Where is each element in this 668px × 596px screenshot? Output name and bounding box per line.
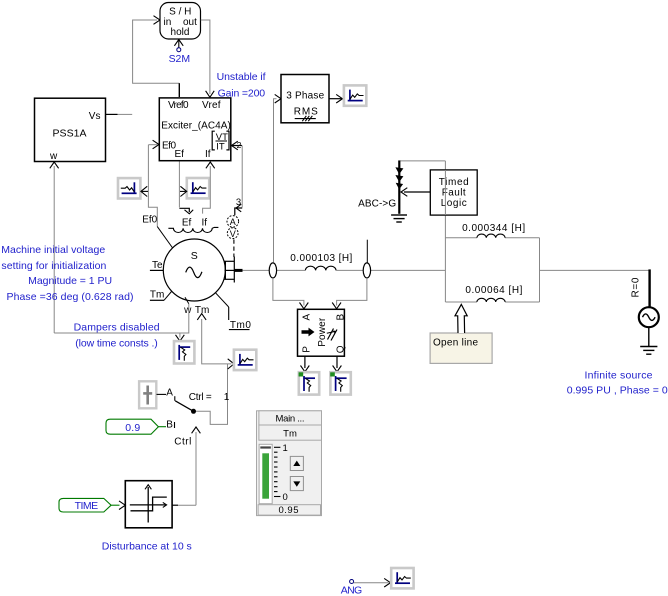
svg-text:w: w <box>183 305 192 316</box>
label Ef0 at machine field <box>142 214 157 225</box>
fault ABC->G symbol <box>395 161 403 214</box>
svg-text:3: 3 <box>236 197 241 208</box>
svg-text:A: A <box>166 387 173 398</box>
svg-text:A: A <box>230 217 236 227</box>
svg-text:0.9: 0.9 <box>125 422 140 434</box>
pin w stub bottom <box>185 297 189 304</box>
svg-text:Vs: Vs <box>89 111 101 122</box>
source infinite bus <box>639 307 659 346</box>
wire fault logic to fault <box>401 188 430 197</box>
wire VT/IT measurement bundle down to meters <box>235 146 242 216</box>
svg-text:Main ...: Main ... <box>276 414 305 425</box>
wire step output to Ctrl <box>172 504 196 506</box>
svg-text:ANG: ANG <box>341 585 363 596</box>
wire bus vertical at fault node <box>444 161 446 302</box>
annotation Disturbance at 10 s <box>102 541 192 553</box>
svg-text:2: 2 <box>237 140 242 150</box>
ground fault <box>391 215 407 222</box>
svg-text:B: B <box>166 420 173 431</box>
wire P output to monitor <box>301 357 310 372</box>
svg-text:P: P <box>301 346 312 353</box>
wire 0.9 to switch input B <box>158 420 174 431</box>
inductor 0.00064 [H] <box>465 285 522 302</box>
wire Ef0 net from machine field to exciter Ef0 <box>148 145 173 249</box>
svg-text:Q: Q <box>335 345 346 353</box>
ground source <box>640 347 657 355</box>
svg-text:(low time consts .): (low time consts .) <box>75 338 158 350</box>
wire fault branch top <box>398 160 445 162</box>
svg-text:ABC->G: ABC->G <box>358 198 396 209</box>
svg-text:If: If <box>205 149 211 160</box>
wire Ef from exciter down to field coil <box>179 162 193 214</box>
label TIME source <box>59 498 111 512</box>
wire parallel branch rectangle <box>445 238 539 302</box>
block Exciter_(AC4A) <box>159 98 231 161</box>
wire If from field coil up to exciter <box>203 162 215 214</box>
slider scale labels 1 and 0 <box>283 443 288 503</box>
wire ANG to monitor <box>354 578 391 587</box>
machine 3-phase terminal ladder <box>225 257 243 283</box>
annotation infinite source <box>567 369 668 396</box>
svg-text:Machine initial voltage: Machine initial voltage <box>1 244 105 256</box>
svg-text:Ef: Ef <box>182 217 192 228</box>
svg-text:R=0: R=0 <box>631 277 642 297</box>
wire to 3 phase RMS <box>274 94 282 262</box>
pin Te <box>150 260 164 271</box>
monitor Tm output channel <box>234 350 256 370</box>
pin arrow into step block <box>119 501 125 510</box>
svg-text:Ctrl: Ctrl <box>174 436 191 447</box>
svg-text:Vref: Vref <box>202 100 221 111</box>
wire S/H input net (from Vref0 node) <box>133 16 180 97</box>
svg-text:Tm: Tm <box>150 290 164 301</box>
wire Vs output stub <box>106 113 132 115</box>
switch two-position Ctrl <box>175 392 230 414</box>
wire Q output to monitor <box>333 357 342 372</box>
monitor Ef0 output channel (mirrored) <box>118 178 148 198</box>
monitor RMS voltage output channel <box>344 85 366 105</box>
svg-text:setting for initialization: setting for initialization <box>1 260 106 272</box>
label VT IT bracket inside exciter <box>212 131 229 152</box>
annotation dampers disabled <box>74 321 160 349</box>
block step disturbance <box>125 481 172 528</box>
svg-text:0.000103 [H]: 0.000103 [H] <box>290 253 352 264</box>
slider track of control panel <box>259 444 272 503</box>
annotation Open line box <box>430 333 492 363</box>
svg-text:Disturbance at 10 s: Disturbance at 10 s <box>102 541 192 553</box>
svg-text:TIME: TIME <box>75 500 99 512</box>
block Power P Q multimeter <box>298 309 347 356</box>
svg-text:Open line: Open line <box>433 337 478 348</box>
label constant 0.9 <box>106 419 158 434</box>
svg-text:Ctrl =: Ctrl = <box>189 392 212 403</box>
monitor Ef output channel <box>180 178 209 198</box>
svg-text:Tm: Tm <box>283 429 297 440</box>
svg-text:Te: Te <box>152 260 163 271</box>
svg-text:Dampers disabled: Dampers disabled <box>74 321 160 333</box>
wire Tm input net from switch to machine <box>196 314 235 425</box>
wire dashed measurement link to machine terminal <box>233 240 235 258</box>
svg-text:PSS1A: PSS1A <box>53 127 87 139</box>
pin Tm0 stub <box>215 293 251 332</box>
pin Tm left <box>150 290 172 301</box>
wire main bus machine to network <box>243 269 446 271</box>
svg-text:Ef0: Ef0 <box>142 214 157 225</box>
svg-text:Vref0: Vref0 <box>168 100 189 111</box>
wire RMS output to monitor <box>329 94 342 103</box>
node ANG <box>341 580 363 596</box>
svg-text:Power: Power <box>317 317 328 347</box>
svg-text:0.995 PU , Phase = 0: 0.995 PU , Phase = 0 <box>567 385 668 397</box>
svg-text:Ef: Ef <box>175 149 185 160</box>
node breakout right <box>363 240 370 278</box>
inductor 0.000344 [H] <box>462 223 525 238</box>
svg-text:1: 1 <box>224 392 230 403</box>
monitor ANG output channel <box>391 568 413 588</box>
node breakout left <box>269 263 276 278</box>
wire S2M to hold port <box>174 40 183 52</box>
svg-text:0.95: 0.95 <box>279 505 299 516</box>
control panel Main / Tm slider <box>257 411 322 516</box>
wire bus branch to power meter B <box>332 278 367 309</box>
slider tick scale <box>274 447 280 496</box>
svg-text:If: If <box>202 217 208 228</box>
node S2M label <box>169 53 191 65</box>
svg-text:B: B <box>335 314 346 321</box>
pin arrow VT/IT 2-signal into exciter right side <box>232 140 243 150</box>
svg-text:Timed: Timed <box>439 177 469 188</box>
svg-text:0.000344 [H]: 0.000344 [H] <box>462 223 525 234</box>
wire grey vertical through fault logic (bus) <box>444 170 446 215</box>
annotation machine initial voltage <box>1 244 133 303</box>
svg-text:3 Phase: 3 Phase <box>286 91 324 102</box>
label R=0 <box>631 277 642 297</box>
wire bus branch to power meter A <box>273 278 308 309</box>
monitor w output channel (rotated) <box>174 341 194 363</box>
meter A ammeter <box>227 216 239 228</box>
svg-text:IT: IT <box>216 142 225 153</box>
svg-text:Unstable if: Unstable if <box>217 71 266 83</box>
svg-text:Logic: Logic <box>441 198 467 209</box>
inductor 0.000103 [H] <box>290 253 352 271</box>
label 3 conductors <box>236 197 241 208</box>
svg-text:S2M: S2M <box>169 53 191 65</box>
annotation Unstable if Gain =200 <box>217 71 266 100</box>
slider input component <box>139 381 156 408</box>
wire Ctrl control signal up into switch <box>174 427 200 505</box>
button down <box>290 477 303 491</box>
wire TIME to step block <box>111 504 119 506</box>
block PSS1A <box>35 98 106 162</box>
svg-text:S: S <box>191 250 198 262</box>
svg-text:0: 0 <box>283 492 288 503</box>
svg-text:hold: hold <box>171 27 190 38</box>
field winding coil <box>168 227 218 232</box>
block Timed Fault Logic <box>430 170 477 215</box>
wire bus to infinite source <box>540 269 650 307</box>
svg-text:w: w <box>49 151 58 162</box>
label ABC->G <box>358 198 396 209</box>
callout hollow arrow <box>455 304 467 333</box>
svg-text:1: 1 <box>283 443 288 454</box>
wire slider to switch input A <box>157 387 175 401</box>
svg-text:Magnitude = 1 PU: Magnitude = 1 PU <box>28 275 112 287</box>
svg-text:A: A <box>301 314 312 321</box>
monitor P output channel (rotated) <box>299 372 320 394</box>
value display 0.95 <box>258 505 320 516</box>
pin arrow Ef0 into exciter <box>153 140 159 149</box>
wire w input of PSS1A from machine speed net <box>50 162 59 333</box>
svg-text:V: V <box>230 229 236 239</box>
wire S/H out to Vref <box>201 20 214 97</box>
button up <box>290 456 303 470</box>
labels Ef If at field winding <box>182 217 207 228</box>
block 3 Phase RMS <box>281 75 329 123</box>
svg-text:Infinite source: Infinite source <box>585 369 653 381</box>
svg-text:Exciter_(AC4A): Exciter_(AC4A) <box>161 120 231 131</box>
monitor Q output channel (rotated) <box>330 372 351 394</box>
meter V voltmeter <box>227 228 238 239</box>
machine synchronous S <box>163 239 225 301</box>
labels w Tm bottom <box>183 305 209 316</box>
wire machine speed w to PSS1A and monitor <box>54 304 189 341</box>
svg-text:0.00064 [H]: 0.00064 [H] <box>465 285 522 296</box>
svg-text:Phase =36 deg (0.628 rad): Phase =36 deg (0.628 rad) <box>7 291 134 303</box>
block S/H sample-hold <box>160 3 201 40</box>
